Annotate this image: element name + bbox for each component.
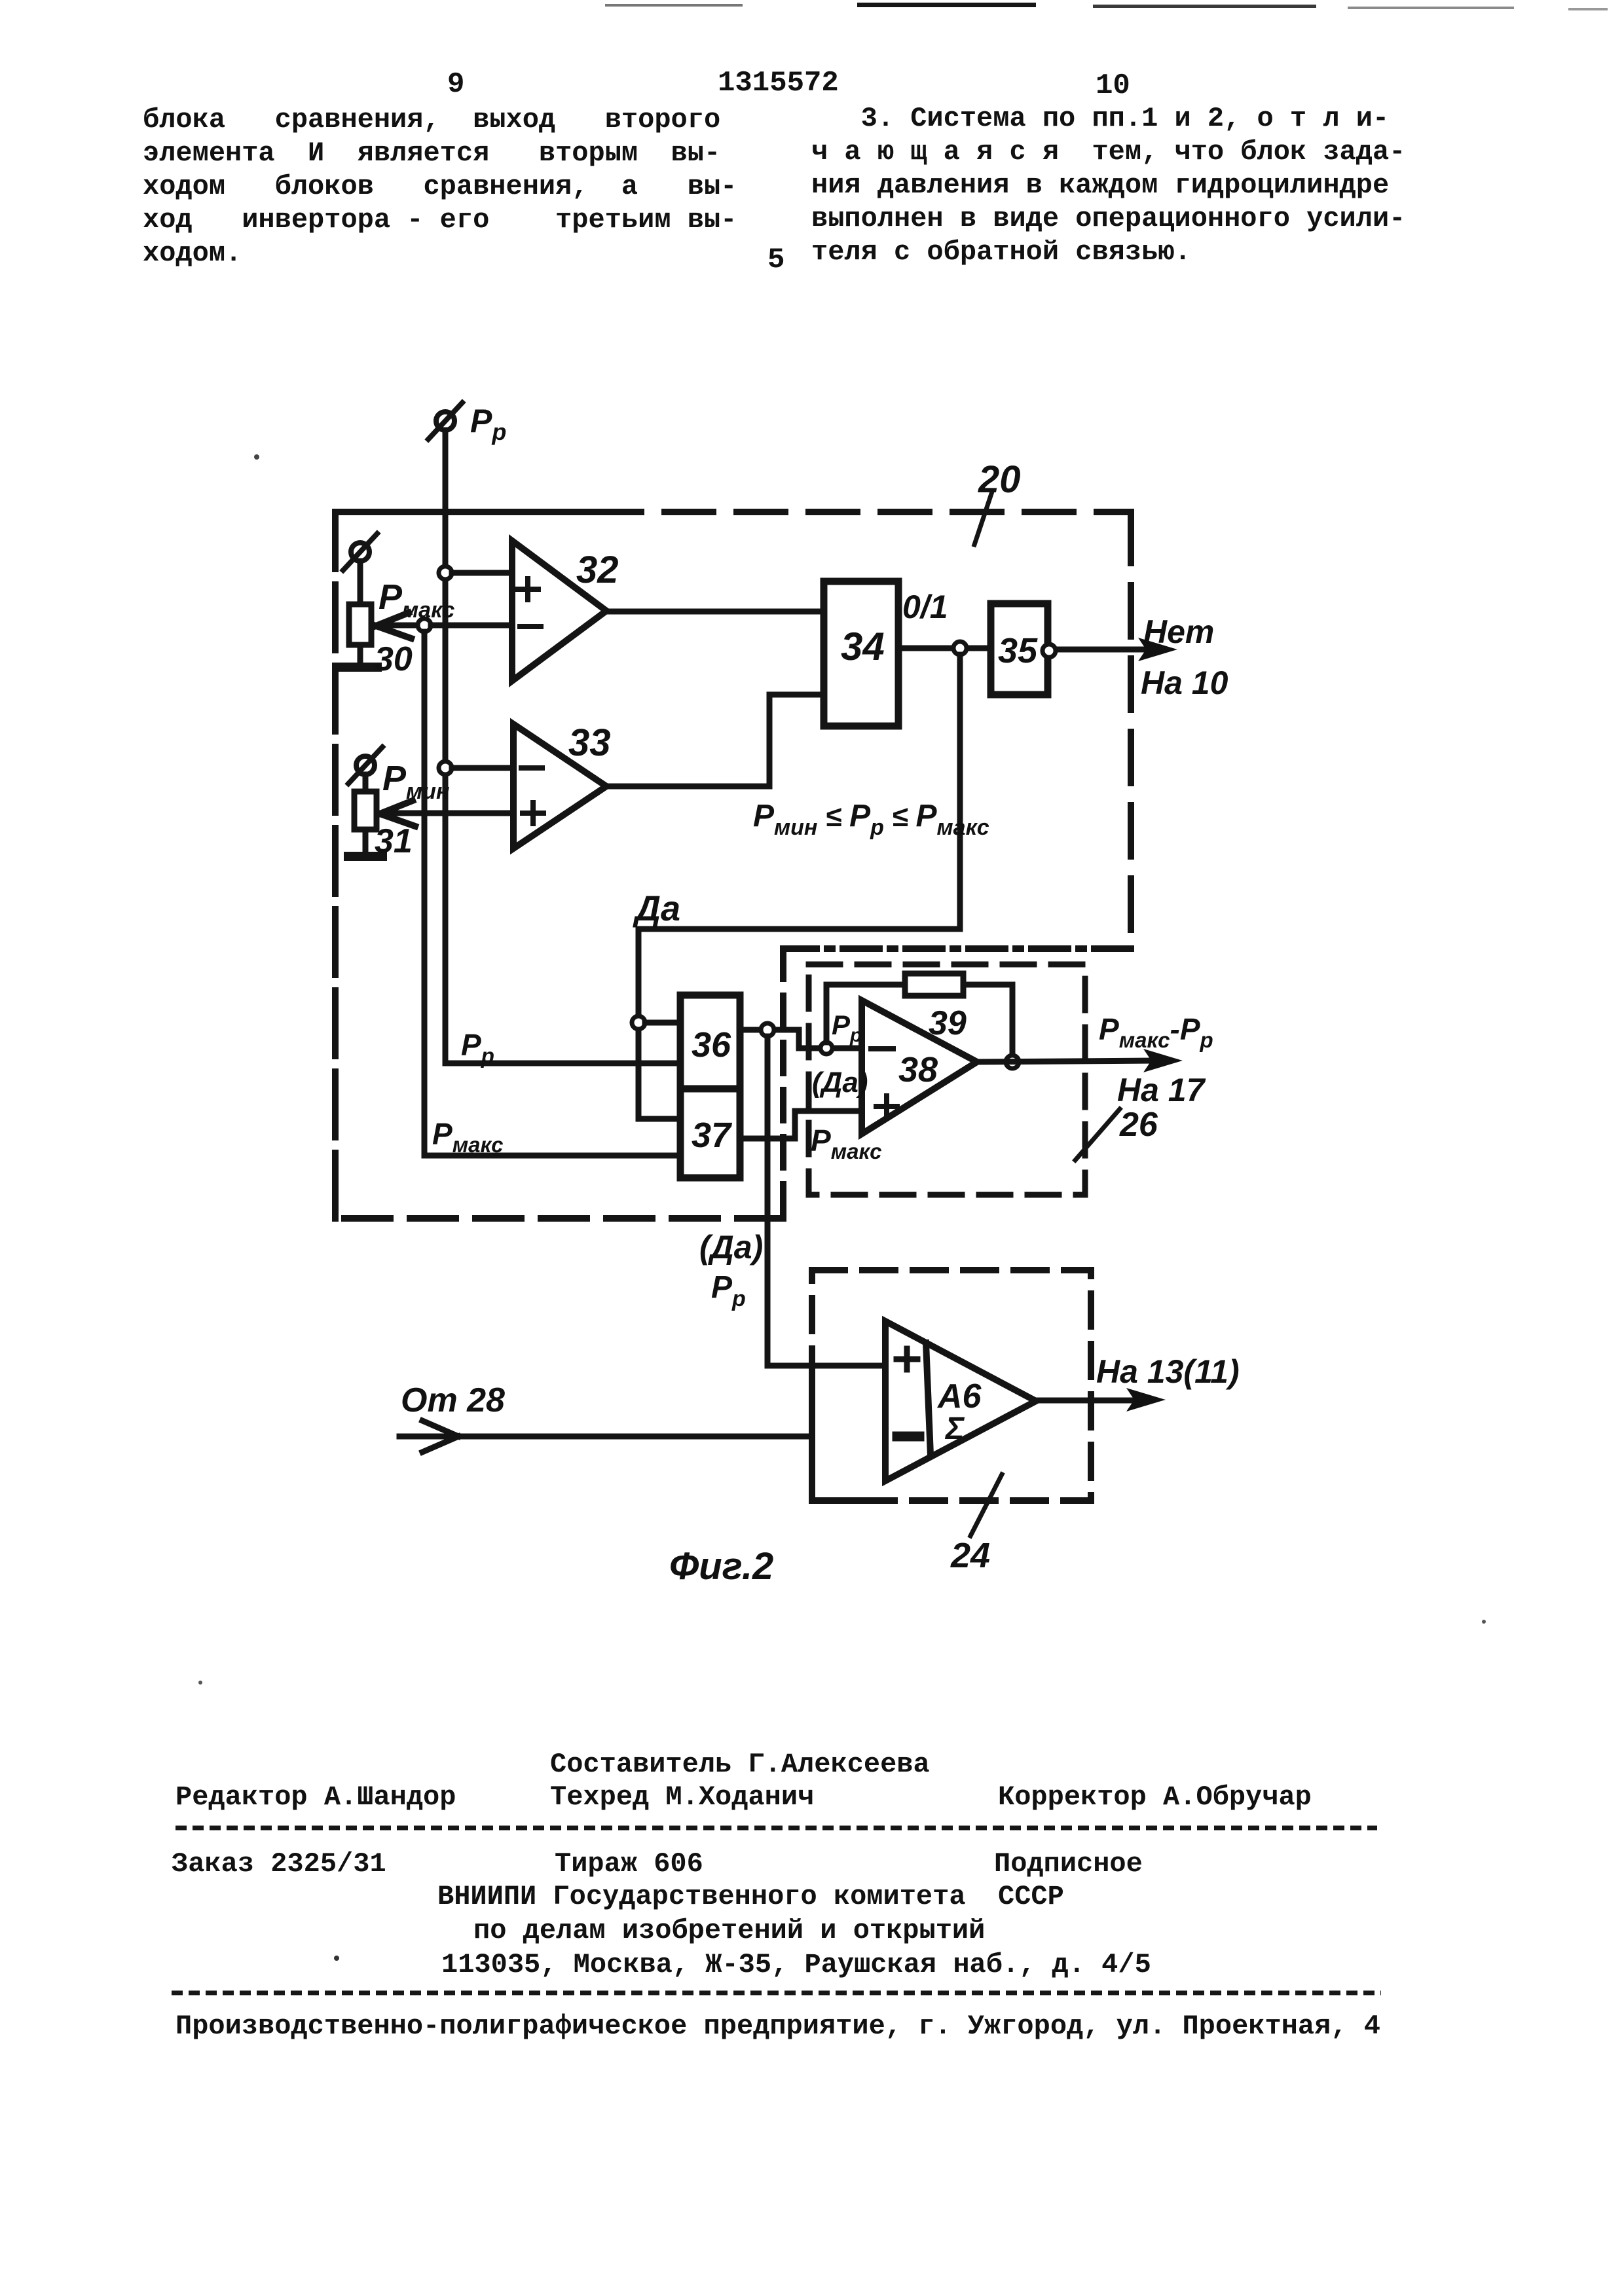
node Pp to comparator 32	[439, 566, 452, 579]
block 37	[680, 1089, 740, 1178]
right text column	[811, 102, 1405, 269]
wire 38 output arrow (Pмакс-Pp На 17)	[977, 1049, 1183, 1072]
potentiometer 30	[343, 534, 377, 664]
wire node to 33 inverting input	[452, 765, 513, 771]
node (Да) Pp	[761, 1023, 774, 1036]
left text column	[143, 103, 737, 270]
op-amp 38	[862, 1000, 977, 1134]
block 34	[824, 581, 898, 726]
potentiometer 31	[348, 747, 382, 853]
block 26 dashed boundary	[809, 964, 1085, 1195]
block 24 bottom-left corner solid segment	[812, 1497, 885, 1504]
inverter bubble of 35	[1043, 644, 1056, 657]
footer dashed rule 1	[175, 1826, 1377, 1831]
wire A6 output arrow (На 13(11))	[1036, 1388, 1166, 1412]
feedback wire through resistor 39	[826, 985, 1012, 1055]
footer imprint block	[550, 1748, 930, 1781]
op-amp 33	[513, 724, 606, 848]
node Pмакс	[418, 619, 431, 632]
top scan artifact lines	[605, 4, 743, 7]
wire node to block 36	[645, 1020, 680, 1026]
ground of potentiometer 30	[343, 663, 377, 672]
node Pp to comparator 33	[439, 761, 452, 774]
op-amp 32	[512, 541, 606, 681]
wire Pp bus (vertical, to block 36)	[445, 430, 680, 1063]
block 20 dashed boundary	[335, 512, 1131, 1218]
wire Pмакс node to 32 inverting input	[431, 623, 512, 629]
op-amp A6 summator	[885, 1321, 1036, 1481]
resistor 39	[905, 974, 963, 996]
ground of potentiometer 31	[348, 852, 382, 861]
label 26	[1075, 1106, 1158, 1160]
wire Да (from node 34-output down to blocks 36/37)	[638, 655, 960, 1119]
footer dashed rule 2	[172, 1991, 1381, 1995]
block 36	[680, 995, 740, 1089]
wire 32 output to block 34	[606, 609, 824, 615]
wiper arrow of 31 / wire to 33 noninverting input	[380, 801, 513, 826]
wire 33 output to block 34	[606, 695, 824, 786]
wire Pмакс bus (vertical, to block 37)	[424, 632, 680, 1156]
block 24 dashed boundary	[812, 1270, 1091, 1501]
block 24 left edge solid segment	[809, 1372, 815, 1501]
wire 35 output arrow (Нет На 10)	[1058, 638, 1177, 661]
label 20	[974, 458, 1021, 545]
wire (Да) Pp down to summator A6	[767, 1036, 885, 1366]
wiper arrow of 30	[376, 613, 424, 638]
wire node to 32 noninverting input	[452, 570, 512, 576]
label 24	[950, 1474, 1002, 1575]
wire 37 output to 38 noninverting input	[740, 1111, 862, 1139]
terminal Pp input	[428, 403, 462, 439]
wire От 28 input	[399, 1421, 812, 1452]
page header numbers	[447, 68, 464, 101]
node Да to block 36	[632, 1016, 645, 1029]
node 38 output	[1006, 1055, 1019, 1068]
node 34 output	[953, 642, 967, 655]
block 35	[991, 604, 1048, 695]
wire 34 output to 35	[898, 646, 991, 651]
wire 36 output to 38 inverting input	[740, 1030, 862, 1048]
terminal circle at 38 inverting input	[821, 1042, 832, 1054]
